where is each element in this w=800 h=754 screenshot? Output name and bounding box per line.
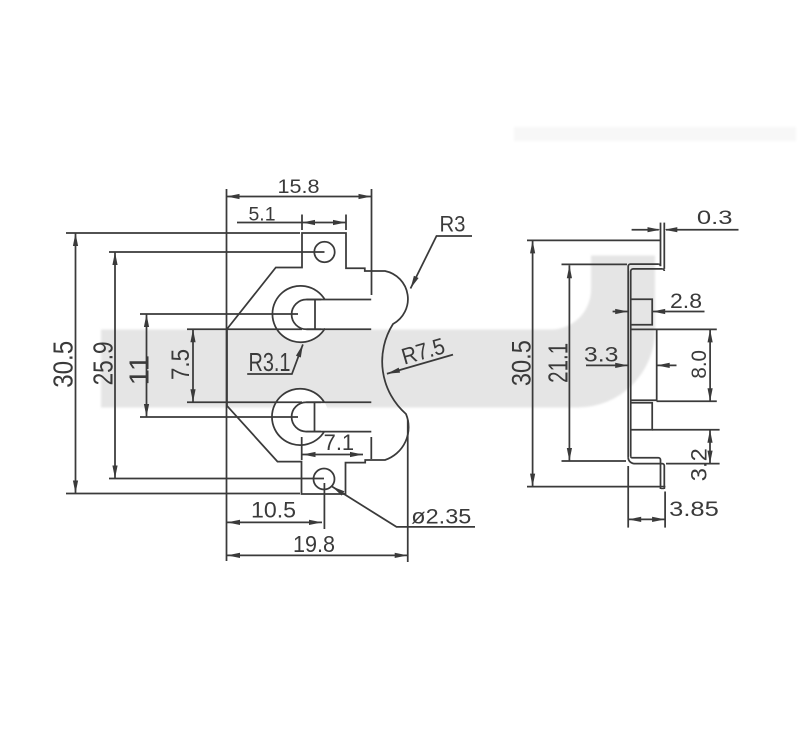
svg-text:3.3: 3.3 xyxy=(584,343,619,367)
dim 11 bottom extension line xyxy=(140,416,298,418)
dim 3.2 top extension line xyxy=(652,429,719,431)
dim 8.0 dimension line xyxy=(709,329,711,401)
side view tab 2 (3.3 x 8.0) xyxy=(631,329,657,400)
side view top hook corner outer xyxy=(658,264,660,266)
side view tab 1 (2.8) xyxy=(631,299,653,325)
dim 3.85 left extension line xyxy=(627,466,629,528)
svg-text:3.85: 3.85 xyxy=(669,497,719,521)
dim 3.85 dimension line xyxy=(628,518,665,520)
side view bottom hook tip cap xyxy=(661,488,664,490)
dim 5.1 extension ticks xyxy=(301,215,303,231)
svg-text:30.5: 30.5 xyxy=(47,341,78,388)
dim 30.5 side top extension line xyxy=(527,239,660,241)
dim 30.5 top extension line xyxy=(66,232,300,234)
dim 21.1 dimension line xyxy=(568,265,570,461)
dim 7.1 extension ticks xyxy=(301,437,303,460)
front view lower mounting hole dia 2.35 xyxy=(314,469,335,490)
svg-text:7.5: 7.5 xyxy=(168,349,195,380)
svg-text:7.1: 7.1 xyxy=(324,430,355,455)
dim 25.9 top extension line through hole center xyxy=(109,251,325,253)
dim 30.5 side bottom extension line xyxy=(527,486,665,488)
side view top hook upper surface xyxy=(628,264,658,457)
side view hook tip left line / 0.3 extension xyxy=(660,223,662,266)
dim 7.5 bottom extension line xyxy=(187,401,302,403)
dim 2.8 dimension line xyxy=(613,311,628,313)
dim 21.1 top extension line xyxy=(562,263,628,265)
dim 3.2 dimension line xyxy=(709,430,711,464)
dim 0.3 dimension line xyxy=(632,229,659,231)
front view lower slot bottom edge xyxy=(306,431,371,433)
dim 7.5 dimension line xyxy=(192,329,194,402)
svg-text:5.1: 5.1 xyxy=(249,203,276,225)
dim 30.5 side dimension line xyxy=(532,240,534,486)
svg-text:15.8: 15.8 xyxy=(278,176,320,198)
front view upper slot top edge xyxy=(307,299,372,301)
svg-text:ø2.35: ø2.35 xyxy=(411,505,471,529)
svg-text:R3: R3 xyxy=(440,211,466,236)
dim 30.5 left dimension line xyxy=(75,233,77,494)
front view upper finger disc white fill xyxy=(273,286,329,342)
dim 8.0 top extension line xyxy=(657,328,717,330)
dim 25.9 dimension line xyxy=(114,252,116,479)
side view bottom bend outer surface xyxy=(628,457,664,489)
front view lower slot top edge xyxy=(306,401,371,403)
dim 11 top extension line xyxy=(140,313,298,315)
svg-text:2.8: 2.8 xyxy=(670,289,702,313)
svg-text:25.9: 25.9 xyxy=(88,341,119,385)
dim 10.5 right extension line from lower hole xyxy=(323,483,325,529)
dim 8.0 bottom extension line xyxy=(657,400,717,402)
svg-text:R3.1: R3.1 xyxy=(249,349,291,377)
svg-text:0.3: 0.3 xyxy=(697,207,733,229)
side view bottom bend inner surface xyxy=(631,456,661,489)
front view upper finger bend line xyxy=(314,300,316,330)
front view upper slot bottom edge xyxy=(307,328,372,330)
dim 3.2 bottom extension line xyxy=(666,463,720,465)
dim 7.1 dimension line xyxy=(303,454,364,456)
front view lower finger slot cap xyxy=(292,402,321,431)
front view upper finger slot xyxy=(292,300,322,330)
side view hook tip right line / 0.3 extension xyxy=(663,223,665,269)
side view tab 3 xyxy=(631,403,653,430)
dim 21.1 bottom extension line xyxy=(562,460,627,462)
dim 10.5 dimension line xyxy=(227,521,322,523)
svg-text:11: 11 xyxy=(124,355,155,386)
dim 15.8 right extension line xyxy=(371,189,373,295)
dim 3.3 dimension line xyxy=(586,364,628,366)
leader dia 2.35 xyxy=(332,487,475,527)
watermark top stripe xyxy=(514,127,796,141)
svg-text:30.5: 30.5 xyxy=(506,340,536,386)
dim 25.9 bottom extension line through hole center xyxy=(109,478,324,480)
dim 11 dimension line xyxy=(146,314,148,417)
leader R3.1 xyxy=(247,344,303,374)
dim 15.8 left extension line full vertical xyxy=(226,189,228,561)
dim 5.1 dimension line xyxy=(237,222,346,224)
svg-text:10.5: 10.5 xyxy=(251,498,296,523)
front view upper mounting hole xyxy=(314,242,334,262)
dim 7.5 top extension line xyxy=(187,328,302,330)
front view lower finger outer circle xyxy=(272,389,324,445)
side view top hook lower surface xyxy=(631,269,663,456)
watermark J-corner band xyxy=(101,256,655,408)
side view top hook lower-right corner xyxy=(662,269,664,271)
dim 19.8 dimension line xyxy=(227,554,408,556)
svg-text:3.2: 3.2 xyxy=(686,448,711,481)
leader R7.5 xyxy=(387,355,453,374)
front view lower finger disc white fill xyxy=(272,389,328,445)
svg-text:8.0: 8.0 xyxy=(687,350,711,379)
dim 15.8 dimension line xyxy=(227,196,372,198)
front view body outline xyxy=(227,233,409,494)
front view lower finger bend line xyxy=(314,402,316,431)
leader R3 xyxy=(411,236,473,289)
dim 19.8 right extension line xyxy=(407,420,409,562)
svg-text:19.8: 19.8 xyxy=(293,531,335,557)
dim 30.5 bottom extension line xyxy=(66,493,300,495)
front view upper finger outer circle R3.1 xyxy=(272,286,324,342)
dim 3.85 right extension line xyxy=(664,492,666,528)
svg-text:21.1: 21.1 xyxy=(543,343,574,383)
